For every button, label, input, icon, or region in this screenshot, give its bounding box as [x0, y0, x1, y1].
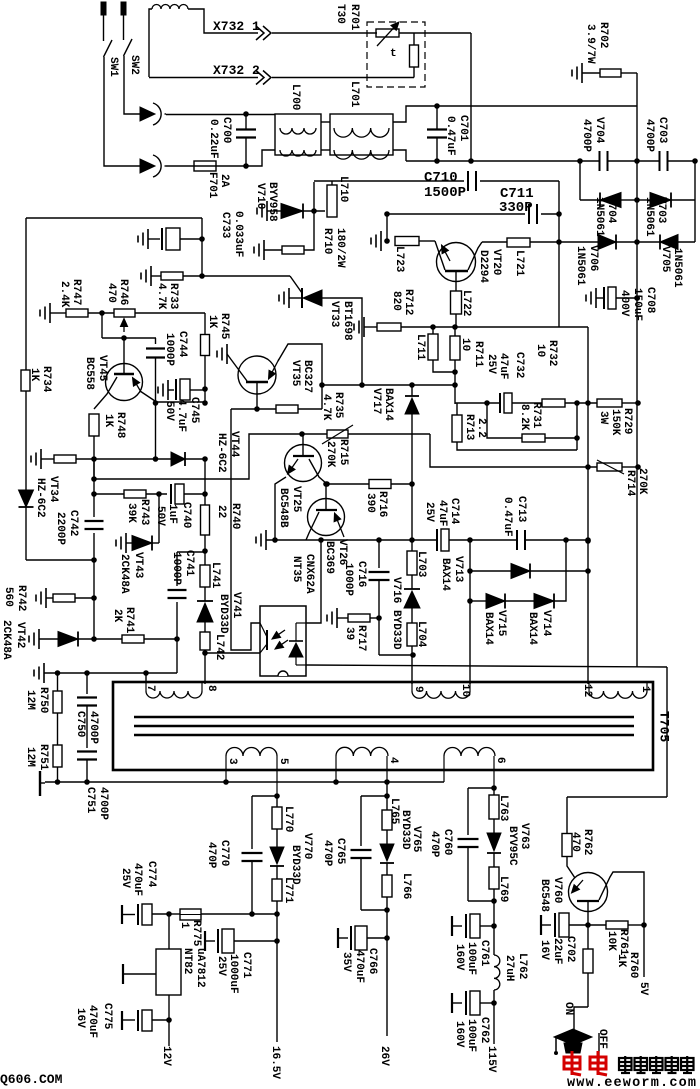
svg-text:150K: 150K — [609, 409, 621, 436]
svg-text:R748: R748 — [114, 412, 126, 439]
svg-text:4700P: 4700P — [643, 119, 655, 152]
svg-text:1K: 1K — [102, 414, 114, 428]
svg-text:R762: R762 — [581, 829, 593, 855]
svg-text:C702: C702 — [564, 936, 576, 962]
svg-text:BAX14: BAX14 — [482, 612, 494, 645]
svg-text:X732 2: X732 2 — [213, 63, 260, 78]
svg-text:C708: C708 — [644, 287, 656, 314]
svg-text:C765: C765 — [334, 838, 346, 865]
svg-text:R743: R743 — [138, 499, 150, 526]
svg-text:C760: C760 — [441, 829, 453, 855]
svg-text:BC369: BC369 — [323, 541, 335, 574]
svg-text:L741: L741 — [209, 562, 221, 589]
svg-text:C701: C701 — [457, 115, 469, 142]
svg-text:160V: 160V — [453, 944, 465, 971]
svg-text:5V: 5V — [637, 982, 649, 996]
svg-text:100uF: 100uF — [465, 1019, 477, 1052]
svg-text:R760: R760 — [627, 952, 639, 978]
svg-text:2.4K: 2.4K — [58, 281, 70, 308]
svg-text:BAX14: BAX14 — [382, 388, 394, 421]
svg-text:L770: L770 — [282, 806, 294, 832]
svg-text:V717: V717 — [370, 388, 382, 414]
svg-text:V760: V760 — [551, 877, 563, 903]
svg-text:25V: 25V — [215, 956, 227, 976]
svg-text:4700P: 4700P — [580, 119, 592, 152]
svg-text:0.47uF: 0.47uF — [444, 116, 456, 156]
svg-text:C703: C703 — [656, 117, 668, 144]
svg-text:10: 10 — [459, 338, 471, 351]
svg-text:R713: R713 — [463, 414, 475, 441]
svg-text:2.2: 2.2 — [475, 418, 487, 438]
svg-text:V713: V713 — [452, 556, 464, 583]
svg-text:4.7K: 4.7K — [155, 283, 167, 310]
svg-text:C775: C775 — [101, 1003, 113, 1030]
svg-text:C766: C766 — [366, 948, 378, 974]
svg-text:NT35: NT35 — [290, 556, 302, 583]
svg-text:470P: 470P — [428, 831, 440, 858]
svg-text:C744: C744 — [176, 331, 188, 358]
svg-text:www.eeworm.com: www.eeworm.com — [567, 1076, 697, 1089]
svg-text:R750: R750 — [37, 687, 49, 713]
svg-text:470: 470 — [105, 283, 117, 303]
svg-text:4: 4 — [387, 757, 399, 764]
svg-text:1K: 1K — [28, 368, 40, 382]
svg-text:C733: C733 — [219, 212, 231, 239]
svg-text:C774: C774 — [145, 861, 157, 888]
svg-text:390: 390 — [364, 493, 376, 513]
svg-text:R715: R715 — [337, 439, 349, 466]
svg-text:L721: L721 — [513, 250, 525, 277]
svg-text:BC548B: BC548B — [277, 488, 289, 528]
svg-text:270K: 270K — [324, 441, 336, 468]
svg-text:X732 1: X732 1 — [213, 19, 260, 34]
svg-text:L762: L762 — [516, 953, 528, 979]
svg-text:D2294: D2294 — [477, 250, 489, 283]
svg-text:R717: R717 — [355, 625, 367, 651]
svg-text:C751: C751 — [84, 787, 96, 814]
svg-text:L710: L710 — [337, 176, 349, 202]
svg-text:470P: 470P — [205, 842, 217, 869]
svg-text:L742: L742 — [213, 634, 225, 660]
svg-text:39: 39 — [343, 627, 355, 640]
svg-text:10: 10 — [459, 684, 471, 697]
svg-text:L763: L763 — [497, 795, 509, 822]
svg-text:12V: 12V — [160, 1046, 172, 1066]
svg-text:3: 3 — [226, 758, 238, 765]
svg-text:V705: V705 — [659, 246, 671, 273]
svg-text:0.47uF: 0.47uF — [501, 497, 513, 537]
svg-text:C732: C732 — [513, 352, 525, 378]
svg-text:V703: V703 — [655, 197, 667, 224]
svg-text:820: 820 — [390, 291, 402, 311]
svg-text:Q606.COM: Q606.COM — [0, 1072, 63, 1087]
svg-text:4.7uF: 4.7uF — [175, 399, 187, 432]
svg-text:L771: L771 — [282, 877, 294, 904]
svg-text:L703: L703 — [415, 551, 427, 578]
svg-text:1N5061: 1N5061 — [643, 197, 655, 237]
svg-text:1uF: 1uF — [166, 504, 178, 524]
svg-text:OFF: OFF — [596, 1029, 608, 1049]
svg-text:BYV958: BYV958 — [266, 182, 278, 222]
svg-text:V765: V765 — [410, 826, 422, 853]
svg-text:F701: F701 — [206, 172, 218, 199]
svg-text:SW1: SW1 — [107, 57, 119, 77]
svg-text:R746: R746 — [117, 279, 129, 305]
svg-text:12: 12 — [581, 684, 593, 697]
svg-text:5: 5 — [277, 758, 289, 765]
svg-text:C750: C750 — [74, 711, 86, 737]
svg-text:L723: L723 — [393, 246, 405, 273]
svg-text:0.22uF: 0.22uF — [207, 119, 219, 159]
svg-text:400V: 400V — [618, 290, 630, 317]
svg-text:V704: V704 — [593, 117, 605, 144]
svg-text:VT45: VT45 — [96, 355, 108, 382]
svg-text:0.033uF: 0.033uF — [232, 211, 244, 257]
svg-text:VT34: VT34 — [47, 476, 59, 503]
svg-text:VT20: VT20 — [490, 249, 502, 275]
svg-text:VT35: VT35 — [289, 360, 301, 387]
svg-text:25V: 25V — [485, 354, 497, 374]
svg-text:BYD33D: BYD33D — [399, 810, 411, 850]
svg-text:1000uF: 1000uF — [227, 954, 239, 994]
svg-text:VT44: VT44 — [228, 431, 240, 458]
svg-text:470P: 470P — [321, 840, 333, 867]
svg-text:R701: R701 — [348, 4, 360, 31]
svg-text:R733: R733 — [167, 283, 179, 310]
svg-text:BC327: BC327 — [301, 360, 313, 393]
svg-text:47uF: 47uF — [497, 353, 509, 379]
svg-text:C714: C714 — [448, 498, 460, 525]
svg-text:V706: V706 — [587, 245, 599, 271]
svg-text:470uF: 470uF — [131, 863, 143, 896]
svg-text:R711: R711 — [472, 341, 484, 368]
svg-text:VT42: VT42 — [14, 622, 26, 648]
svg-text:2200P: 2200P — [54, 512, 66, 545]
svg-text:L722: L722 — [460, 290, 472, 316]
svg-text:470uF: 470uF — [353, 950, 365, 983]
svg-text:C770: C770 — [218, 840, 230, 866]
svg-text:6: 6 — [494, 757, 506, 764]
svg-text:L700: L700 — [289, 84, 301, 110]
svg-text:1: 1 — [639, 686, 651, 693]
svg-text:C741: C741 — [183, 550, 195, 577]
svg-text:22: 22 — [215, 505, 227, 518]
svg-text:1000P: 1000P — [163, 333, 175, 366]
svg-text:T705: T705 — [657, 711, 672, 742]
svg-text:27uH: 27uH — [503, 955, 515, 981]
svg-text:7: 7 — [144, 685, 156, 692]
svg-text:1500P: 1500P — [424, 185, 466, 201]
svg-text:C700: C700 — [220, 117, 232, 143]
svg-text:HZ-6C2: HZ-6C2 — [215, 433, 227, 473]
svg-text:12M: 12M — [24, 690, 36, 710]
svg-text:CNX62A: CNX62A — [303, 554, 315, 594]
svg-text:BC548: BC548 — [538, 879, 550, 912]
svg-text:BYD33D: BYD33D — [217, 594, 229, 634]
svg-text:1K: 1K — [615, 954, 627, 968]
svg-text:BYV95C: BYV95C — [506, 826, 518, 866]
svg-text:C710: C710 — [424, 170, 458, 186]
svg-text:4700P: 4700P — [87, 711, 99, 744]
svg-text:t: t — [390, 48, 397, 60]
svg-text:R734: R734 — [40, 366, 52, 393]
svg-text:2CK48A: 2CK48A — [0, 620, 12, 660]
svg-text:R741: R741 — [123, 607, 135, 634]
svg-text:R729: R729 — [621, 408, 633, 434]
svg-text:V704: V704 — [605, 197, 617, 224]
svg-text:R735: R735 — [332, 392, 344, 419]
svg-text:HZ-6C2: HZ-6C2 — [34, 478, 46, 518]
svg-text:L701: L701 — [348, 81, 360, 108]
svg-text:R732: R732 — [546, 340, 558, 366]
svg-text:470: 470 — [569, 832, 581, 852]
svg-text:2A: 2A — [218, 174, 230, 188]
svg-text:1N5061: 1N5061 — [593, 197, 605, 237]
svg-text:L765: L765 — [388, 798, 400, 825]
svg-text:1K: 1K — [206, 315, 218, 329]
svg-text:560: 560 — [2, 587, 14, 607]
svg-text:1N5061: 1N5061 — [671, 248, 683, 288]
svg-text:1: 1 — [178, 922, 190, 929]
svg-text:1N5061: 1N5061 — [574, 246, 586, 286]
svg-text:16V: 16V — [538, 940, 550, 960]
svg-text:R731: R731 — [530, 402, 542, 429]
svg-text:VT25: VT25 — [290, 486, 302, 513]
svg-text:C713: C713 — [515, 496, 527, 523]
svg-text:R747: R747 — [70, 279, 82, 305]
svg-text:VT43: VT43 — [132, 552, 144, 579]
svg-text:10: 10 — [534, 344, 546, 357]
svg-text:180/2W: 180/2W — [334, 228, 346, 268]
svg-text:VT33: VT33 — [328, 301, 340, 328]
svg-text:BAX14: BAX14 — [526, 612, 538, 645]
svg-text:25V: 25V — [119, 868, 131, 888]
svg-text:R742: R742 — [15, 585, 27, 611]
svg-text:uA7812: uA7812 — [194, 948, 206, 988]
svg-text:V763: V763 — [518, 823, 530, 850]
svg-text:L711: L711 — [414, 334, 426, 361]
svg-text:26V: 26V — [378, 1046, 390, 1066]
svg-text:C745: C745 — [188, 397, 200, 424]
svg-text:25V: 25V — [423, 502, 435, 522]
svg-text:50V: 50V — [163, 401, 175, 421]
svg-text:SW2: SW2 — [128, 55, 140, 75]
svg-text:L766: L766 — [400, 873, 412, 899]
svg-text:T30: T30 — [334, 4, 346, 24]
svg-text:35V: 35V — [340, 952, 352, 972]
svg-text:2CK48A: 2CK48A — [118, 554, 130, 594]
svg-text:47uF: 47uF — [436, 500, 448, 526]
svg-text:4.7K: 4.7K — [320, 394, 332, 421]
svg-text:R712: R712 — [402, 289, 414, 315]
svg-text:R775: R775 — [190, 920, 202, 947]
svg-text:L769: L769 — [497, 876, 509, 902]
svg-text:1000P: 1000P — [342, 563, 354, 596]
svg-text:R740: R740 — [229, 503, 241, 529]
svg-text:270K: 270K — [636, 468, 648, 495]
svg-text:R751: R751 — [37, 744, 49, 771]
svg-text:V715: V715 — [495, 610, 507, 637]
svg-text:9: 9 — [412, 686, 424, 693]
svg-text:4700P: 4700P — [97, 787, 109, 820]
svg-text:R714: R714 — [624, 470, 636, 497]
svg-text:C771: C771 — [240, 952, 252, 979]
svg-text:160V: 160V — [453, 1021, 465, 1048]
svg-text:50V: 50V — [154, 506, 166, 526]
svg-text:R745: R745 — [218, 313, 230, 340]
svg-text:C742: C742 — [67, 510, 79, 536]
svg-text:150uF: 150uF — [631, 288, 643, 321]
svg-text:R710: R710 — [321, 228, 333, 254]
svg-text:C761: C761 — [478, 940, 490, 967]
svg-text:470uF: 470uF — [86, 1005, 98, 1038]
svg-text:ON: ON — [562, 1002, 574, 1015]
svg-text:NT82: NT82 — [181, 948, 193, 974]
svg-text:22uF: 22uF — [551, 938, 563, 964]
svg-text:R716: R716 — [376, 491, 388, 517]
svg-text:115V: 115V — [485, 1046, 497, 1073]
svg-text:8.2K: 8.2K — [518, 404, 530, 431]
svg-text:8: 8 — [205, 685, 217, 692]
svg-text:39K: 39K — [125, 503, 137, 523]
svg-text:3.9/7W: 3.9/7W — [584, 24, 596, 64]
svg-text:16V: 16V — [74, 1008, 86, 1028]
svg-text:V741: V741 — [230, 592, 242, 619]
svg-text:10K: 10K — [605, 931, 617, 951]
svg-text:V716 BYD33D: V716 BYD33D — [390, 577, 402, 650]
svg-text:3W: 3W — [597, 411, 609, 425]
svg-text:C716: C716 — [355, 561, 367, 587]
svg-text:BC558: BC558 — [83, 357, 95, 390]
svg-text:100uF: 100uF — [465, 942, 477, 975]
svg-text:V710: V710 — [254, 183, 266, 209]
svg-text:1000P: 1000P — [170, 552, 182, 585]
svg-text:C762: C762 — [478, 1017, 490, 1043]
svg-text:16.5V: 16.5V — [269, 1046, 281, 1079]
svg-text:BAX14: BAX14 — [439, 558, 451, 591]
svg-text:V770: V770 — [301, 833, 313, 859]
svg-text:V714: V714 — [540, 610, 552, 637]
svg-text:C740: C740 — [180, 502, 192, 528]
svg-text:12M: 12M — [24, 747, 36, 767]
svg-text:R702: R702 — [597, 22, 609, 48]
svg-text:2K: 2K — [111, 609, 123, 623]
svg-text:L704: L704 — [415, 621, 427, 648]
svg-text:VT26: VT26 — [336, 539, 348, 565]
svg-text:BT1698: BT1698 — [341, 301, 353, 341]
